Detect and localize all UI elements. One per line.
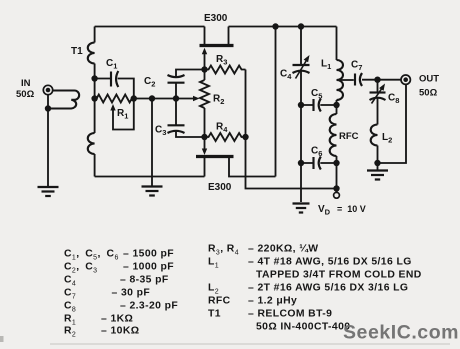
resistor R2 xyxy=(204,70,206,81)
svg-text:50Ω: 50Ω xyxy=(16,89,35,100)
node C6 right xyxy=(333,160,339,166)
wire C6 leads xyxy=(301,162,337,164)
transformer T1 primary hairpin winding xyxy=(48,91,79,109)
node R1 left xyxy=(91,95,97,101)
wire drain feedback vertical xyxy=(275,27,277,177)
node rail drain tap xyxy=(272,23,278,29)
node R4 right xyxy=(242,134,248,140)
VD terminal xyxy=(334,192,340,198)
wire gate bus xyxy=(134,98,193,100)
wire C7 to out xyxy=(362,79,401,81)
node bus ground tap xyxy=(149,95,155,101)
node VD rail xyxy=(333,185,339,191)
svg-text:– 2.3-20 pF: – 2.3-20 pF xyxy=(120,301,178,312)
inductor RFC xyxy=(336,105,338,114)
wire L1 tap xyxy=(337,79,354,81)
node R4 left xyxy=(201,134,207,140)
svg-text:R3, R4: R3, R4 xyxy=(208,244,239,257)
capacitor C6 xyxy=(312,157,314,169)
svg-text:E300: E300 xyxy=(204,13,228,24)
ground bypass xyxy=(293,202,310,204)
node C6 left xyxy=(298,160,304,166)
wire C1 branch xyxy=(95,79,134,99)
svg-text:– 220KΩ, ¼W: – 220KΩ, ¼W xyxy=(248,244,318,255)
svg-text:C2, C3: C2, C3 xyxy=(64,262,97,275)
svg-text:T1: T1 xyxy=(71,46,83,57)
transformer T1 secondary winding xyxy=(94,27,96,43)
wire input drop xyxy=(47,95,49,186)
OUT connector jack xyxy=(401,75,410,84)
wire C4 branch xyxy=(300,27,302,106)
svg-text:– 8-35 pF: – 8-35 pF xyxy=(120,275,169,286)
inductor L1 xyxy=(336,27,338,61)
node C5 right xyxy=(333,102,339,108)
transistor Q1 E300 top xyxy=(200,44,234,47)
node C4 top xyxy=(298,23,304,29)
capacitor C8 variable xyxy=(370,91,386,93)
scan tick left edge xyxy=(0,336,4,342)
node C1 left xyxy=(91,75,97,81)
node bus C2C3 tap xyxy=(173,95,179,101)
node input junction xyxy=(45,105,51,111)
capacitor C2 xyxy=(168,82,185,84)
wire top rail right segment xyxy=(229,26,337,28)
svg-text:IN: IN xyxy=(21,78,31,89)
R1 wiper arm xyxy=(113,99,134,130)
node C5 left xyxy=(298,102,304,108)
wire R3R4 right vertical xyxy=(246,70,337,189)
svg-text:– 4T #18 AWG, 5/16 DX 5/16 LG: – 4T #18 AWG, 5/16 DX 5/16 LG xyxy=(248,257,412,268)
ground bus xyxy=(142,185,163,187)
wire C2 leads xyxy=(176,70,205,99)
R2 wiper arrow xyxy=(193,96,200,101)
capacitor C1 xyxy=(110,72,112,87)
inductor L2 xyxy=(371,125,378,146)
wire bottom rail xyxy=(95,176,205,178)
svg-text:– 2T #16 AWG 5/16 DX 3/16 LG: – 2T #16 AWG 5/16 DX 3/16 LG xyxy=(248,283,408,294)
svg-text:– 1KΩ: – 1KΩ xyxy=(101,314,133,325)
ground input xyxy=(38,186,59,188)
svg-text:– RELCOM BT-9: – RELCOM BT-9 xyxy=(248,309,332,320)
svg-text:RFC: RFC xyxy=(339,131,359,142)
node output junction xyxy=(374,77,380,83)
svg-text:RFC: RFC xyxy=(208,296,231,307)
capacitor C4 variable xyxy=(293,64,310,66)
wire C8 leads xyxy=(377,80,379,125)
wire L2 ground stem xyxy=(377,163,379,170)
svg-text:– 1500 pF: – 1500 pF xyxy=(123,249,174,260)
wire top rail left segment xyxy=(95,26,205,28)
wire output return xyxy=(378,85,407,164)
node L2 bottom xyxy=(374,160,380,166)
svg-text:– 1000 pF: – 1000 pF xyxy=(123,262,174,273)
svg-text:50Ω: 50Ω xyxy=(419,88,438,99)
wire bus ground drop xyxy=(151,99,153,186)
transistor Q2 E300 bottom xyxy=(196,155,234,158)
IN connector jack xyxy=(43,85,52,94)
resistor R3 xyxy=(205,66,246,74)
svg-text:50Ω IN-400CT-400: 50Ω IN-400CT-400 xyxy=(256,322,350,333)
resistor R1 xyxy=(95,95,134,103)
capacitor C3 xyxy=(168,124,185,126)
node R1 right xyxy=(131,95,137,101)
wire VD vertical xyxy=(336,163,338,192)
svg-text:– 30 pF: – 30 pF xyxy=(112,288,151,299)
svg-text:= 10 V: = 10 V xyxy=(337,204,366,214)
capacitor C7 xyxy=(354,74,356,86)
svg-text:TAPPED 3/4T FROM COLD END: TAPPED 3/4T FROM COLD END xyxy=(256,270,422,281)
capacitor C5 xyxy=(312,99,314,111)
svg-text:– 1.2 μHy: – 1.2 μHy xyxy=(248,296,297,307)
ground output xyxy=(367,169,388,171)
wire C3 leads xyxy=(176,99,205,138)
svg-text:SeekIC.com: SeekIC.com xyxy=(343,322,459,344)
scan streak bottom xyxy=(50,343,450,345)
svg-text:OUT: OUT xyxy=(419,74,439,85)
svg-text:– 10KΩ: – 10KΩ xyxy=(101,326,139,337)
node R3 left xyxy=(201,66,207,72)
wire C5 leads xyxy=(301,104,337,106)
svg-text:E300: E300 xyxy=(208,182,232,193)
svg-text:T1: T1 xyxy=(208,309,221,320)
resistor R4 xyxy=(205,133,246,141)
wire bypass vertical xyxy=(300,105,302,202)
